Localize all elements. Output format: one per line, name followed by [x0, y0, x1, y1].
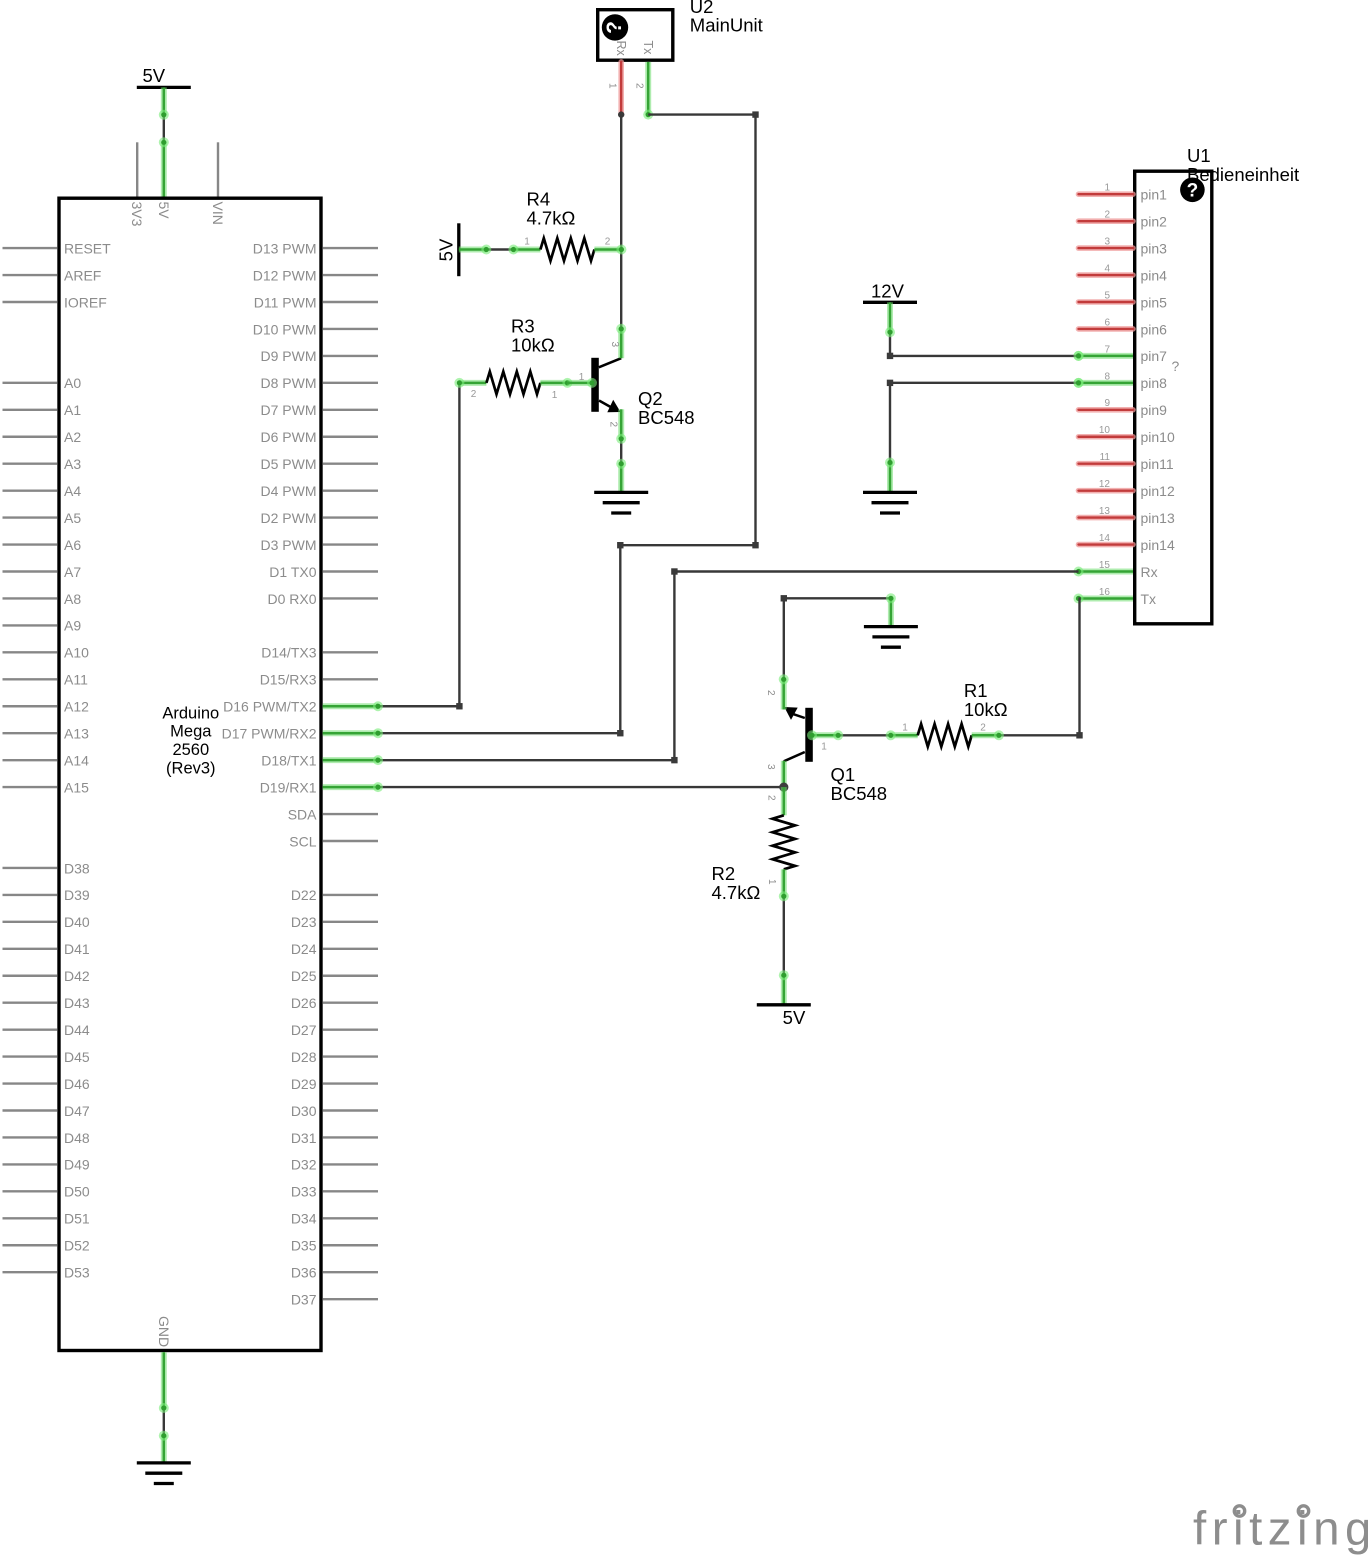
svg-text:D51: D51: [64, 1211, 90, 1227]
svg-text:A11: A11: [64, 672, 88, 688]
svg-text:2: 2: [765, 690, 776, 696]
svg-text:D45: D45: [64, 1049, 90, 1065]
svg-text:pin9: pin9: [1141, 402, 1168, 418]
svg-text:Q2: Q2: [638, 388, 663, 409]
svg-text:D27: D27: [291, 1022, 317, 1038]
svg-text:1: 1: [607, 83, 618, 89]
svg-text:D19/RX1: D19/RX1: [260, 779, 317, 795]
svg-text:AREF: AREF: [64, 267, 101, 283]
svg-text:D12 PWM: D12 PWM: [253, 267, 317, 283]
svg-text:R3: R3: [511, 316, 535, 337]
svg-text:A14: A14: [64, 752, 89, 768]
svg-text:D34: D34: [291, 1211, 317, 1227]
svg-text:RESET: RESET: [64, 240, 111, 256]
svg-text:D1 TX0: D1 TX0: [269, 564, 316, 580]
svg-text:R4: R4: [527, 189, 551, 210]
svg-text:D13 PWM: D13 PWM: [253, 240, 317, 256]
svg-text:D33: D33: [291, 1184, 317, 1200]
svg-text:VIN: VIN: [210, 202, 226, 225]
svg-text:D43: D43: [64, 995, 90, 1011]
svg-text:1: 1: [766, 879, 777, 885]
svg-text:A3: A3: [64, 456, 81, 472]
svg-text:D30: D30: [291, 1103, 317, 1119]
svg-text:2: 2: [980, 723, 986, 734]
svg-text:D47: D47: [64, 1103, 90, 1119]
svg-text:3: 3: [765, 764, 776, 770]
svg-text:2: 2: [605, 237, 611, 248]
svg-text:D22: D22: [291, 887, 317, 903]
svg-text:pin12: pin12: [1141, 483, 1175, 499]
svg-text:D0 RX0: D0 RX0: [267, 591, 316, 607]
svg-text:fritzing: fritzing: [1193, 1503, 1368, 1556]
svg-text:pin4: pin4: [1141, 267, 1168, 283]
svg-text:D2 PWM: D2 PWM: [261, 510, 317, 526]
svg-text:D24: D24: [291, 941, 317, 957]
svg-text:BC548: BC548: [831, 783, 888, 804]
svg-text:3: 3: [1104, 237, 1110, 248]
svg-text:A6: A6: [64, 537, 81, 553]
svg-text:8: 8: [1104, 371, 1110, 382]
svg-text:A2: A2: [64, 429, 81, 445]
svg-text:13: 13: [1099, 506, 1111, 517]
svg-text:D49: D49: [64, 1157, 90, 1173]
svg-text:(Rev3): (Rev3): [166, 759, 216, 777]
svg-text:pin11: pin11: [1141, 456, 1174, 472]
svg-text:12: 12: [1099, 479, 1111, 490]
svg-text:1: 1: [579, 372, 585, 383]
svg-text:D42: D42: [64, 968, 90, 984]
svg-text:1: 1: [552, 390, 558, 401]
svg-text:GND: GND: [156, 1316, 172, 1347]
svg-text:U1: U1: [1187, 145, 1211, 166]
svg-text:Tx: Tx: [641, 41, 655, 56]
svg-text:pin7: pin7: [1141, 348, 1168, 364]
svg-text:A5: A5: [64, 510, 81, 526]
svg-text:14: 14: [1099, 533, 1111, 544]
svg-text:D35: D35: [291, 1238, 317, 1254]
svg-text:D25: D25: [291, 968, 317, 984]
svg-text:15: 15: [1099, 560, 1111, 571]
svg-text:Bedieneinheit: Bedieneinheit: [1187, 164, 1299, 185]
svg-text:D32: D32: [291, 1157, 317, 1173]
svg-text:D52: D52: [64, 1238, 90, 1254]
svg-text:2: 2: [766, 795, 777, 801]
svg-text:D6 PWM: D6 PWM: [261, 429, 317, 445]
svg-text:6: 6: [1104, 317, 1110, 328]
svg-text:D31: D31: [291, 1130, 317, 1146]
svg-text:D29: D29: [291, 1076, 317, 1092]
svg-text:D46: D46: [64, 1076, 90, 1092]
svg-text:?: ?: [1187, 181, 1199, 202]
svg-text:MainUnit: MainUnit: [690, 15, 763, 36]
svg-text:2: 2: [1104, 210, 1110, 221]
svg-text:A0: A0: [64, 375, 81, 391]
svg-text:3V3: 3V3: [129, 202, 145, 227]
svg-text:D11 PWM: D11 PWM: [254, 294, 317, 310]
svg-text:10kΩ: 10kΩ: [964, 699, 1008, 720]
svg-text:7: 7: [1104, 344, 1110, 355]
svg-text:D50: D50: [64, 1184, 90, 1200]
svg-text:D17 PWM/RX2: D17 PWM/RX2: [222, 726, 317, 742]
svg-text:SCL: SCL: [289, 833, 316, 849]
svg-text:Rx: Rx: [1141, 564, 1158, 580]
svg-text:D18/TX1: D18/TX1: [261, 752, 316, 768]
svg-text:2: 2: [471, 389, 477, 400]
svg-text:2560: 2560: [172, 741, 209, 759]
svg-text:SDA: SDA: [288, 806, 317, 822]
svg-text:A12: A12: [64, 699, 89, 715]
svg-text:D15/RX3: D15/RX3: [260, 672, 317, 688]
svg-text:D5 PWM: D5 PWM: [261, 456, 317, 472]
svg-text:pin5: pin5: [1141, 294, 1168, 310]
svg-text:D7 PWM: D7 PWM: [261, 402, 317, 418]
svg-text:D28: D28: [291, 1049, 317, 1065]
svg-text:9: 9: [1104, 398, 1110, 409]
svg-text:A9: A9: [64, 618, 81, 634]
svg-text:D39: D39: [64, 887, 90, 903]
svg-text:Arduino: Arduino: [162, 704, 219, 722]
svg-text:D4 PWM: D4 PWM: [261, 483, 317, 499]
svg-text:10: 10: [1099, 425, 1111, 436]
svg-text:5V: 5V: [783, 1007, 806, 1028]
svg-text:12V: 12V: [871, 280, 905, 301]
svg-text:A13: A13: [64, 726, 89, 742]
svg-text:D10 PWM: D10 PWM: [253, 321, 317, 337]
svg-text:D41: D41: [64, 941, 90, 957]
svg-text:D14/TX3: D14/TX3: [261, 645, 316, 661]
svg-text:D40: D40: [64, 914, 90, 930]
svg-text:Mega: Mega: [170, 723, 212, 741]
svg-text:4: 4: [1104, 263, 1110, 274]
svg-text:D36: D36: [291, 1265, 317, 1281]
svg-text:5V: 5V: [436, 238, 457, 261]
svg-text:2: 2: [634, 83, 645, 89]
svg-text:A1: A1: [64, 402, 81, 418]
svg-text:R1: R1: [964, 680, 988, 701]
svg-text:D8 PWM: D8 PWM: [261, 375, 317, 391]
svg-text:1: 1: [821, 742, 827, 753]
svg-text:pin13: pin13: [1141, 510, 1175, 526]
svg-text:A8: A8: [64, 591, 81, 607]
svg-text:4.7kΩ: 4.7kΩ: [527, 208, 576, 229]
svg-text:3: 3: [609, 342, 620, 348]
svg-text:1: 1: [1104, 183, 1110, 194]
svg-text:?: ?: [603, 21, 626, 34]
svg-text:pin14: pin14: [1141, 537, 1175, 553]
svg-text:?: ?: [1172, 358, 1180, 374]
svg-text:Rx: Rx: [614, 41, 628, 57]
svg-text:pin2: pin2: [1141, 213, 1168, 229]
svg-text:pin1: pin1: [1141, 187, 1168, 203]
svg-text:BC548: BC548: [638, 407, 695, 428]
svg-text:D16 PWM/TX2: D16 PWM/TX2: [223, 699, 317, 715]
svg-text:1: 1: [902, 723, 908, 734]
svg-text:16: 16: [1099, 587, 1111, 598]
svg-text:pin10: pin10: [1141, 429, 1175, 445]
svg-text:D3 PWM: D3 PWM: [261, 537, 317, 553]
svg-text:D53: D53: [64, 1265, 90, 1281]
svg-text:R2: R2: [712, 863, 736, 884]
svg-text:Q1: Q1: [831, 764, 856, 785]
svg-text:11: 11: [1100, 452, 1111, 463]
svg-text:D26: D26: [291, 995, 317, 1011]
svg-text:pin6: pin6: [1141, 321, 1168, 337]
svg-text:D44: D44: [64, 1022, 90, 1038]
svg-text:D38: D38: [64, 860, 90, 876]
svg-text:D9 PWM: D9 PWM: [261, 348, 317, 364]
svg-text:5V: 5V: [156, 202, 172, 220]
svg-text:Tx: Tx: [1141, 591, 1157, 607]
svg-text:A10: A10: [64, 645, 89, 661]
svg-text:A4: A4: [64, 483, 81, 499]
svg-text:IOREF: IOREF: [64, 294, 107, 310]
svg-text:A7: A7: [64, 564, 81, 580]
svg-text:1: 1: [524, 237, 530, 248]
svg-text:D48: D48: [64, 1130, 90, 1146]
svg-text:4.7kΩ: 4.7kΩ: [712, 882, 761, 903]
svg-text:A15: A15: [64, 779, 89, 795]
svg-text:D37: D37: [291, 1291, 317, 1307]
svg-text:10kΩ: 10kΩ: [511, 335, 555, 356]
svg-text:pin8: pin8: [1141, 375, 1168, 391]
svg-text:5V: 5V: [143, 65, 166, 86]
svg-text:pin3: pin3: [1141, 240, 1168, 256]
svg-text:2: 2: [608, 422, 619, 428]
svg-text:D23: D23: [291, 914, 317, 930]
svg-text:5: 5: [1104, 290, 1110, 301]
